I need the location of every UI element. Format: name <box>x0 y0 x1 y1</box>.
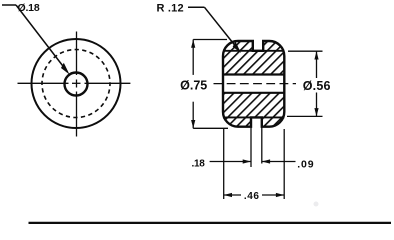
grommet outline <box>223 41 284 127</box>
dashed circle (groove dia) <box>42 50 110 118</box>
arrowhead of hole leader <box>61 63 70 75</box>
svg-text:Ø.75: Ø.75 <box>180 79 207 93</box>
notch left extension line <box>250 118 252 167</box>
hole bottom edge <box>223 92 284 94</box>
groove bottom line bottom <box>223 116 284 118</box>
dia .56 dimension <box>287 51 323 116</box>
hole band (white, no hatch) <box>220 75 288 92</box>
bottom rule <box>29 222 392 224</box>
svg-text:.18: .18 <box>192 159 206 170</box>
faint speck <box>314 202 319 207</box>
R .12 leader <box>188 7 239 50</box>
outer circle (OD .75) <box>32 39 121 128</box>
hole top edge <box>223 73 284 75</box>
svg-text:Ø.56: Ø.56 <box>303 79 331 93</box>
svg-text:R .12: R .12 <box>157 2 184 14</box>
hatching <box>220 38 288 130</box>
.09 dimension (groove width) <box>262 161 296 163</box>
vertical centerline <box>76 32 78 137</box>
horizontal centerline <box>18 82 131 84</box>
dia .75 dimension <box>193 40 228 129</box>
hole circle (.18) <box>65 73 88 96</box>
notch right extension line <box>261 118 263 164</box>
section centerline <box>214 83 297 85</box>
.46 dimension (width) <box>224 129 285 199</box>
leader line for hole dia <box>2 5 68 72</box>
.18 dimension (wall) <box>210 161 251 163</box>
svg-text:.46: .46 <box>244 191 260 202</box>
svg-text:Ø.18: Ø.18 <box>18 2 40 14</box>
svg-text:.09: .09 <box>297 159 314 171</box>
groove bottom line top <box>223 50 284 52</box>
